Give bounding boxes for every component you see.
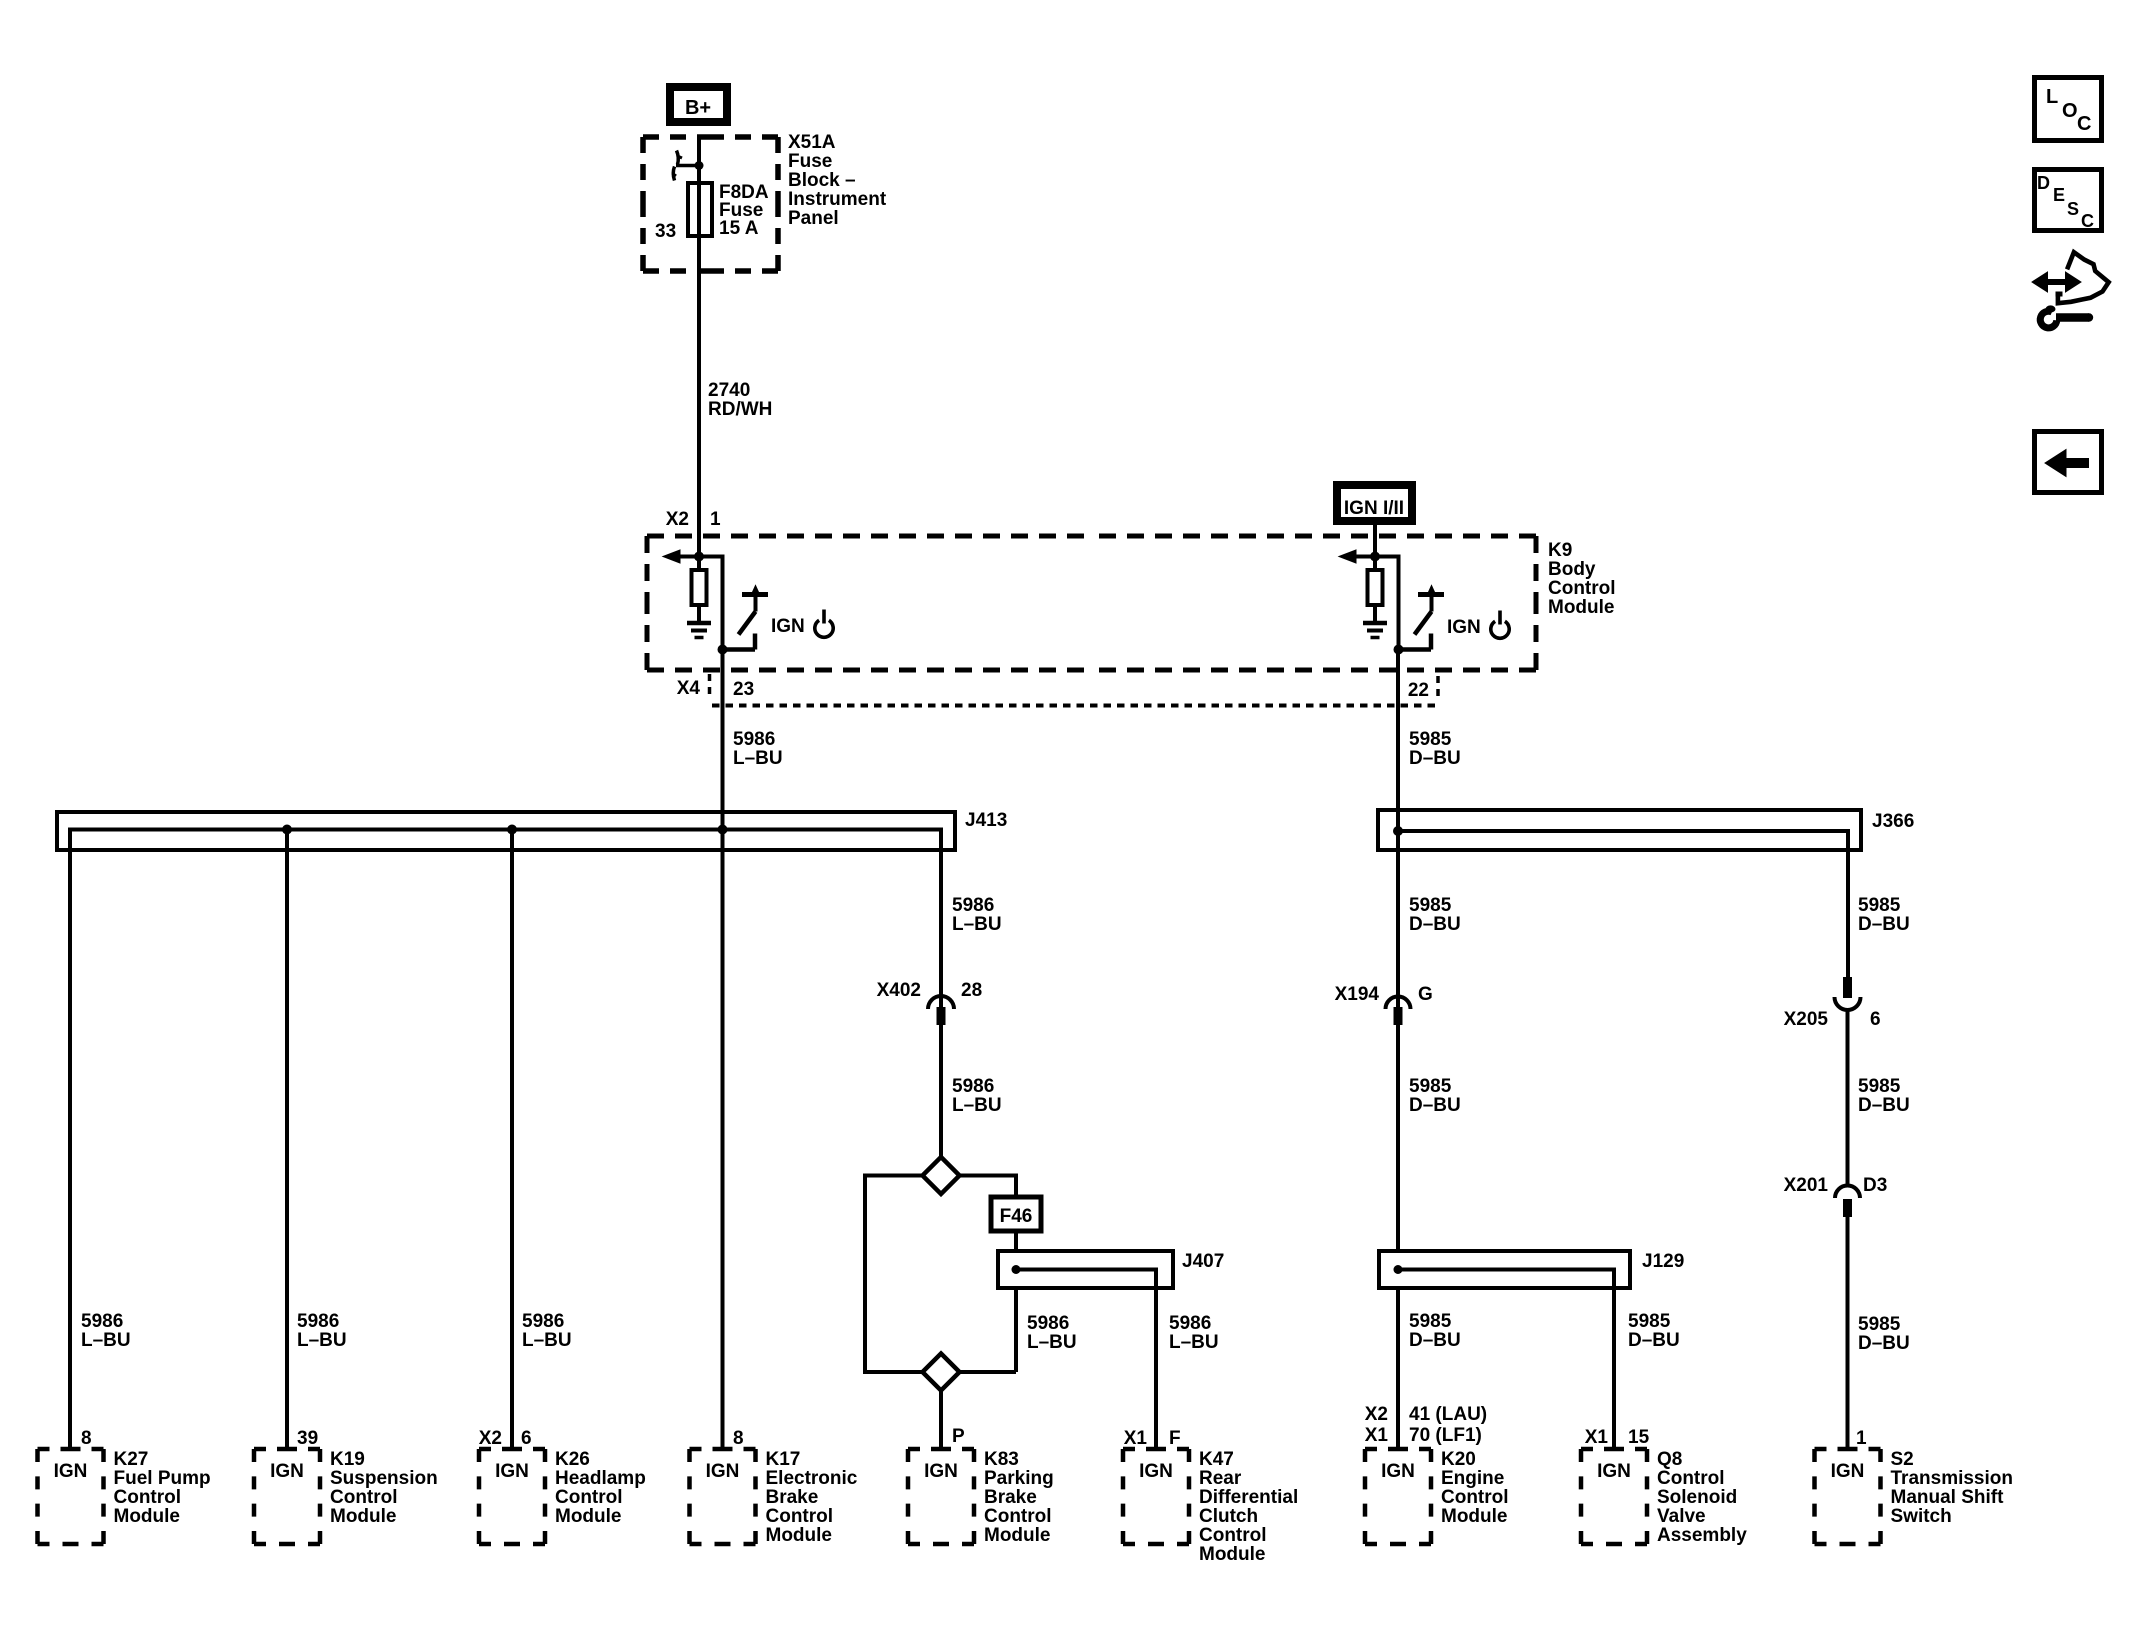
svg-text:5986: 5986 [297, 1311, 339, 1332]
svg-text:Module: Module [330, 1506, 397, 1527]
svg-text:39: 39 [297, 1428, 318, 1449]
svg-text:5985: 5985 [1858, 1314, 1901, 1335]
wire 5985 D-BU to S2 [1846, 1217, 1850, 1449]
svg-text:IGN I/II: IGN I/II [1344, 498, 1404, 519]
svg-text:8: 8 [81, 1428, 92, 1449]
svg-text:D–BU: D–BU [1409, 1330, 1461, 1351]
svg-text:J413: J413 [965, 810, 1007, 831]
svg-text:Differential: Differential [1199, 1487, 1298, 1508]
svg-text:X2: X2 [1365, 1404, 1388, 1425]
svg-text:Switch: Switch [1891, 1506, 1952, 1527]
svg-text:K26: K26 [555, 1449, 590, 1470]
svg-text:IGN: IGN [1381, 1461, 1415, 1482]
svg-text:Module: Module [114, 1506, 181, 1527]
wire into junction [1373, 534, 1377, 557]
wire from IGN I/II into BCM [1373, 525, 1377, 557]
power terminal IGN I/II [1337, 485, 1412, 521]
svg-text:C: C [2081, 211, 2094, 231]
svg-text:IGN: IGN [706, 1461, 740, 1482]
junction [507, 825, 517, 835]
svg-text:Module: Module [984, 1525, 1051, 1546]
svg-text:X1: X1 [1365, 1425, 1389, 1446]
wire drop to X205 [1846, 829, 1850, 977]
wire drop to K19 [285, 830, 289, 1450]
wire branch to ignition switch [1375, 555, 1401, 559]
power terminal B+ [670, 87, 727, 122]
svg-text:5985: 5985 [1409, 895, 1452, 916]
svg-text:D–BU: D–BU [1409, 748, 1461, 769]
svg-text:IGN: IGN [270, 1461, 304, 1482]
svg-text:J366: J366 [1872, 811, 1914, 832]
svg-text:Solenoid: Solenoid [1657, 1487, 1737, 1508]
wire drop to X194 [1396, 831, 1400, 1008]
svg-text:J407: J407 [1182, 1251, 1224, 1272]
svg-text:Control: Control [1657, 1468, 1725, 1489]
svg-text:Module: Module [1199, 1544, 1266, 1565]
svg-text:X1: X1 [1585, 1427, 1609, 1448]
svg-text:IGN: IGN [1831, 1461, 1865, 1482]
wire J407 to splice [1014, 1288, 1018, 1372]
ignition switch contact [1418, 592, 1444, 597]
svg-text:P: P [952, 1426, 965, 1447]
svg-text:Manual Shift: Manual Shift [1891, 1487, 2005, 1508]
splice pack J407 [998, 1251, 1173, 1288]
svg-text:L–BU: L–BU [81, 1330, 131, 1351]
svg-text:Q8: Q8 [1657, 1449, 1682, 1470]
svg-text:Engine: Engine [1441, 1468, 1504, 1489]
svg-text:6: 6 [1870, 1009, 1881, 1030]
svg-text:5986: 5986 [1169, 1313, 1211, 1334]
junction to output pin [718, 645, 728, 655]
svg-text:D–BU: D–BU [1409, 1095, 1461, 1116]
svg-text:L–BU: L–BU [522, 1330, 572, 1351]
svg-text:Brake: Brake [984, 1487, 1037, 1508]
svg-text:70 (LF1): 70 (LF1) [1409, 1425, 1482, 1446]
junction in fuse block [695, 161, 704, 170]
fuse block X51A dashed box [643, 134, 711, 140]
svg-text:L: L [2046, 86, 2058, 108]
svg-text:Valve: Valve [1657, 1506, 1706, 1527]
svg-text:L–BU: L–BU [952, 914, 1002, 935]
bus wire in J413 [70, 828, 943, 832]
svg-text:5986: 5986 [952, 1076, 994, 1097]
svg-text:22: 22 [1408, 680, 1429, 701]
bus wire in J366 [1398, 829, 1850, 833]
svg-text:Module: Module [766, 1525, 833, 1546]
svg-text:Control: Control [1199, 1525, 1267, 1546]
svg-text:5985: 5985 [1858, 895, 1901, 916]
wire 5986 L-BU from BCM pin 23 through J413 to K17 [721, 650, 725, 1450]
module S2 Transmission Manual Shift Switch [1815, 1447, 1827, 1452]
svg-text:Fuel Pump: Fuel Pump [114, 1468, 211, 1489]
svg-text:D–BU: D–BU [1628, 1330, 1680, 1351]
svg-text:L–BU: L–BU [297, 1330, 347, 1351]
module K17 Electronic Brake Control Module [690, 1447, 702, 1452]
svg-text:L–BU: L–BU [1169, 1332, 1219, 1353]
svg-text:23: 23 [733, 679, 754, 700]
svg-text:K83: K83 [984, 1449, 1019, 1470]
junction [1393, 826, 1403, 836]
svg-text:K27: K27 [114, 1449, 149, 1470]
svg-text:K47: K47 [1199, 1449, 1234, 1470]
wire drop to X402 [939, 828, 943, 1009]
junction [718, 825, 728, 835]
ignition switch contact [742, 592, 768, 597]
svg-text:K9: K9 [1548, 540, 1572, 561]
svg-text:X201: X201 [1784, 1175, 1829, 1196]
svg-text:O: O [2062, 100, 2078, 122]
power symbol [1491, 621, 1509, 638]
module K19 Suspension Control Module [254, 1447, 266, 1452]
svg-text:X51A: X51A [788, 132, 836, 153]
svg-text:D–BU: D–BU [1409, 914, 1461, 935]
wire X194 to J129 [1396, 1025, 1400, 1251]
svg-text:C: C [2077, 113, 2091, 135]
junction to output pin [1394, 645, 1404, 655]
svg-text:Control: Control [1441, 1487, 1509, 1508]
svg-text:Control: Control [766, 1506, 834, 1527]
wire 2740 RD/WH [697, 236, 701, 536]
svg-text:IGN: IGN [1139, 1461, 1173, 1482]
svg-text:5986: 5986 [522, 1311, 564, 1332]
svg-text:G: G [1418, 984, 1433, 1005]
wire to K83 pin P [939, 1391, 943, 1450]
splice pack J366 [1378, 810, 1861, 850]
wire 5986 L-BU to splice [939, 1025, 943, 1157]
svg-text:D–BU: D–BU [1858, 1333, 1910, 1354]
internal arrow to module [677, 555, 699, 559]
fuse block bus tap symbol [676, 164, 699, 168]
module K26 Headlamp Control Module [479, 1447, 491, 1452]
svg-text:Fuse: Fuse [788, 151, 832, 172]
svg-text:F: F [1169, 1428, 1181, 1449]
svg-text:Electronic: Electronic [766, 1468, 858, 1489]
inline connector X201 pin D3 [1835, 1186, 1860, 1199]
DESC button [2035, 170, 2102, 231]
wire 5985 D-BU from BCM pin 22 [1396, 650, 1400, 832]
wire branch to ignition switch [699, 555, 725, 559]
svg-text:E: E [2053, 185, 2065, 205]
diagnostic link icon [2046, 279, 2071, 285]
internal arrow to module [1353, 555, 1375, 559]
svg-text:5986: 5986 [81, 1311, 123, 1332]
svg-text:33: 33 [655, 221, 676, 242]
svg-text:28: 28 [961, 980, 982, 1001]
wire drop to K27 [68, 828, 72, 1450]
svg-text:IGN: IGN [771, 616, 805, 637]
svg-text:S: S [2067, 199, 2079, 219]
wire 5985 D-BU drop to Q8 [1612, 1268, 1616, 1450]
wire F46 to J407 [1014, 1231, 1018, 1251]
junction [1370, 552, 1380, 562]
svg-text:J129: J129 [1642, 1251, 1684, 1272]
wire 5986 L-BU drop to K47 [1154, 1268, 1158, 1450]
svg-text:Rear: Rear [1199, 1468, 1242, 1489]
svg-text:Control: Control [555, 1487, 623, 1508]
svg-text:X4: X4 [677, 678, 701, 699]
body control module K9 dashed box [647, 534, 1092, 539]
resistor (coil) to ground [697, 557, 701, 569]
svg-text:X2: X2 [666, 509, 689, 530]
svg-text:L–BU: L–BU [952, 1095, 1002, 1116]
wire bypass branch (left) [865, 1174, 923, 1178]
svg-text:Headlamp: Headlamp [555, 1468, 646, 1489]
svg-text:D: D [2037, 173, 2050, 193]
LOC button [2035, 78, 2102, 141]
wire 5985 D-BU drop to K20 [1396, 1288, 1400, 1449]
svg-text:Control: Control [984, 1506, 1052, 1527]
junction [1012, 1265, 1021, 1274]
svg-text:Brake: Brake [766, 1487, 819, 1508]
svg-text:Assembly: Assembly [1657, 1525, 1747, 1546]
svg-text:Body: Body [1548, 559, 1596, 580]
svg-text:Module: Module [1441, 1506, 1508, 1527]
splice diamond (top) [923, 1157, 960, 1194]
svg-text:41 (LAU): 41 (LAU) [1409, 1404, 1487, 1425]
svg-text:D–BU: D–BU [1858, 914, 1910, 935]
connector strip dotted line [712, 704, 1440, 708]
svg-text:IGN: IGN [924, 1461, 958, 1482]
power symbol [815, 620, 833, 637]
svg-text:5986: 5986 [952, 895, 994, 916]
module K47 Rear Differential Clutch Control Module [1123, 1447, 1135, 1452]
wire into junction [697, 534, 701, 557]
fuse F46 [991, 1197, 1041, 1231]
module K20 Engine Control Module [1365, 1447, 1377, 1452]
svg-text:2740: 2740 [708, 380, 750, 401]
svg-text:Suspension: Suspension [330, 1468, 438, 1489]
wire drop to K26 [510, 830, 514, 1450]
svg-text:K20: K20 [1441, 1449, 1476, 1470]
svg-text:IGN: IGN [495, 1461, 529, 1482]
svg-text:Transmission: Transmission [1891, 1468, 2014, 1489]
svg-text:L–BU: L–BU [1027, 1332, 1077, 1353]
svg-text:6: 6 [521, 1428, 532, 1449]
svg-text:Module: Module [555, 1506, 622, 1527]
svg-text:X2: X2 [479, 1428, 502, 1449]
module Q8 Control Solenoid Valve Assembly [1581, 1447, 1593, 1452]
svg-text:D–BU: D–BU [1858, 1095, 1910, 1116]
svg-text:15 A: 15 A [719, 218, 759, 239]
svg-text:5985: 5985 [1858, 1076, 1901, 1097]
svg-text:5986: 5986 [733, 729, 775, 750]
junction [282, 825, 292, 835]
back arrow button [2035, 432, 2102, 493]
inline connector X402 pin 28 [928, 996, 954, 1009]
svg-text:Block –: Block – [788, 170, 856, 191]
module K27 Fuel Pump Control Module [38, 1447, 50, 1452]
svg-text:Control: Control [114, 1487, 182, 1508]
svg-text:Instrument: Instrument [788, 189, 887, 210]
svg-text:F46: F46 [1000, 1206, 1033, 1227]
svg-text:Panel: Panel [788, 208, 839, 229]
svg-text:5985: 5985 [1409, 729, 1452, 750]
svg-text:IGN: IGN [1597, 1461, 1631, 1482]
svg-text:1: 1 [710, 509, 721, 530]
bus wire in J129 [1398, 1268, 1616, 1272]
svg-text:B+: B+ [685, 97, 711, 119]
svg-text:X194: X194 [1335, 984, 1380, 1005]
splice diamond (bottom) [923, 1354, 960, 1391]
wrench [2040, 311, 2057, 328]
splice pack J413 [57, 812, 955, 850]
junction [694, 552, 704, 562]
junction [1394, 1265, 1403, 1274]
svg-text:Control: Control [330, 1487, 398, 1508]
svg-text:Clutch: Clutch [1199, 1506, 1258, 1527]
splice pack J129 [1379, 1251, 1630, 1288]
wire B+ feed into fuse block [697, 137, 701, 183]
svg-text:Control: Control [1548, 578, 1616, 599]
svg-text:5986: 5986 [1027, 1313, 1069, 1334]
fuse F8DA 15 A [697, 183, 701, 236]
svg-text:S2: S2 [1891, 1449, 1914, 1470]
svg-text:1: 1 [1856, 1428, 1867, 1449]
svg-text:D3: D3 [1863, 1175, 1887, 1196]
svg-text:8: 8 [733, 1428, 744, 1449]
svg-text:K19: K19 [330, 1449, 365, 1470]
ground symbol [687, 621, 711, 626]
svg-text:Module: Module [1548, 597, 1615, 618]
svg-text:Parking: Parking [984, 1468, 1054, 1489]
svg-text:IGN: IGN [54, 1461, 88, 1482]
module K83 Parking Brake Control Module [908, 1447, 920, 1452]
bus wire in J407 [1016, 1268, 1158, 1272]
svg-text:L–BU: L–BU [733, 748, 783, 769]
svg-text:X1: X1 [1124, 1428, 1148, 1449]
svg-text:5985: 5985 [1409, 1311, 1452, 1332]
resistor (coil) to ground [1373, 557, 1377, 569]
wire fused branch (right) [960, 1174, 1019, 1178]
inline connector X205 pin 6 [1843, 977, 1852, 998]
svg-text:K17: K17 [766, 1449, 801, 1470]
svg-text:IGN: IGN [1447, 617, 1481, 638]
svg-text:X402: X402 [877, 980, 921, 1001]
svg-text:5985: 5985 [1628, 1311, 1671, 1332]
svg-text:5985: 5985 [1409, 1076, 1452, 1097]
svg-text:X205: X205 [1784, 1009, 1829, 1030]
wire 5985 D-BU [1846, 1010, 1850, 1185]
svg-text:RD/WH: RD/WH [708, 399, 772, 420]
svg-text:15: 15 [1628, 1427, 1650, 1448]
ground symbol [1363, 621, 1387, 626]
